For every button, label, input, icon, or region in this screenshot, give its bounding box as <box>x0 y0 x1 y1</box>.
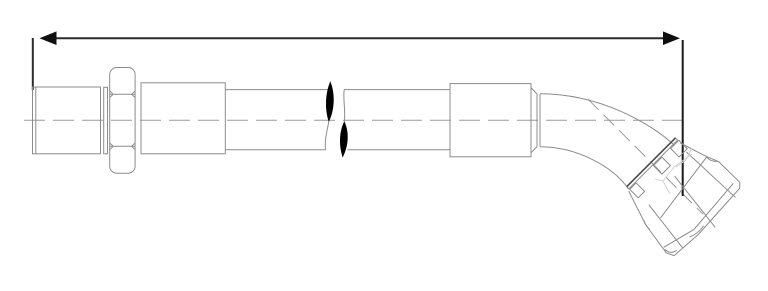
faint cone detail lines inside nut <box>655 148 692 194</box>
nut facet line lower <box>644 205 687 248</box>
swivel nut body silhouette <box>617 131 745 259</box>
centerline (horizontal dashed) <box>24 119 683 121</box>
left extension line <box>32 38 34 90</box>
flare washer plate <box>627 138 678 189</box>
hose break wavy line right <box>343 90 345 158</box>
collar facet cell top <box>671 140 688 157</box>
chamfer mark lower-right <box>132 143 135 149</box>
nut chamfer lens bottom corner <box>665 244 677 256</box>
left arrowhead <box>40 31 57 45</box>
chamfer mark upper-right <box>132 91 135 97</box>
nut chamfer lens bottom-left corner <box>642 220 652 230</box>
right extension line <box>682 40 684 196</box>
hex facet line upper <box>110 93 135 95</box>
hose break lens right (filled) <box>340 122 348 158</box>
male stem (left fitting body) <box>33 87 108 154</box>
right arrowhead <box>663 31 680 45</box>
dimension line <box>54 37 665 39</box>
nut hex edge line <box>653 157 714 218</box>
hose break wavy line left <box>325 82 330 150</box>
ferrule right <box>450 84 531 157</box>
nut chamfer lens end kink <box>689 224 704 239</box>
collar behind right ferrule <box>531 88 540 153</box>
elbow tube inner curve <box>540 147 629 189</box>
collar facet cell middle <box>653 157 670 174</box>
male stem inner edge line <box>35 87 37 154</box>
hose left segment <box>225 82 330 150</box>
centerline (45-degree dashed, elbow axis) <box>588 99 703 214</box>
chamfer mark upper-left <box>110 91 113 97</box>
washer dark edge <box>627 138 676 187</box>
washer band <box>104 87 108 154</box>
hex nut (left, side view) <box>110 68 135 174</box>
elbow tube outer curve <box>540 94 675 146</box>
collar facet cell bottom <box>630 183 645 198</box>
nut facet line upper <box>686 150 735 199</box>
nut chamfer lens top kink <box>707 154 718 165</box>
hex facet line lower <box>110 145 135 147</box>
ferrule left <box>141 83 225 154</box>
nut mid facet line <box>669 176 720 227</box>
swivel nut assembly (rotated 45deg) <box>613 128 750 265</box>
hose right segment <box>343 90 450 158</box>
hose break lens left (filled) <box>326 82 334 122</box>
nut end-face band <box>664 180 737 253</box>
chamfer mark lower-left <box>110 143 113 149</box>
